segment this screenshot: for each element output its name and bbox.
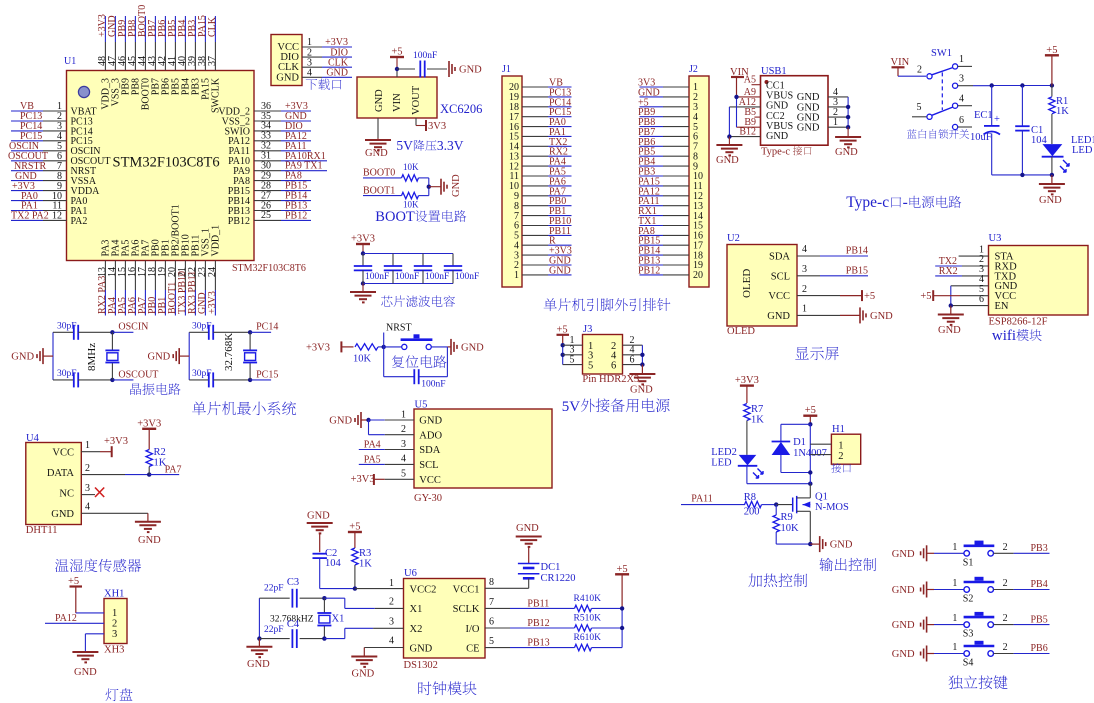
U1 pin 8 VSSA — [11, 171, 97, 187]
svg-text:LED2: LED2 — [711, 447, 737, 458]
power VIN port switch — [891, 57, 910, 76]
U5 pin 5 VCC +3V3 — [351, 469, 414, 485]
USB1 pin 2 — [828, 107, 848, 118]
svg-text:+3V3: +3V3 — [104, 436, 128, 447]
svg-text:PA4: PA4 — [364, 439, 381, 450]
svg-text:GND: GND — [148, 352, 171, 363]
USB1 pin 3 — [828, 97, 848, 108]
USB1 pin A9 — [737, 87, 761, 98]
U1 pin 39 PB3 — [187, 16, 202, 95]
J1 pin 14 — [509, 137, 572, 153]
svg-text:J2: J2 — [689, 64, 698, 75]
wire BOOT junction — [427, 178, 441, 196]
power +5 port lamp — [68, 576, 82, 613]
USB1 pin A5 — [744, 75, 761, 86]
svg-text:PB14: PB14 — [846, 246, 868, 257]
svg-text:4: 4 — [401, 454, 406, 465]
download-port pin 3 — [302, 57, 352, 68]
U1 pin 26 PB13 — [228, 200, 311, 217]
svg-text:wifi: wifi — [992, 328, 1016, 344]
svg-text:NC: NC — [59, 488, 74, 499]
svg-text:1K: 1K — [359, 559, 372, 570]
wire crystal left rail — [52, 332, 54, 380]
svg-text:GND: GND — [870, 311, 893, 322]
svg-text:GND: GND — [892, 585, 915, 596]
svg-text:+: + — [994, 114, 1000, 125]
svg-text:1K: 1K — [154, 458, 167, 469]
U1 pin 48 VDD_3 — [97, 14, 112, 110]
svg-text:I/O: I/O — [466, 624, 480, 635]
svg-text:3: 3 — [85, 483, 90, 494]
svg-text:GND: GND — [138, 535, 161, 546]
power GND port S3 — [892, 617, 934, 633]
resistor R7 1K — [744, 404, 765, 455]
svg-text:1: 1 — [401, 409, 406, 420]
wire D1 loop — [781, 424, 813, 474]
U6 pin 6 net PB12 resistor R5 10K — [485, 614, 622, 632]
power +3V3 port R7 — [735, 375, 759, 403]
svg-text:1: 1 — [802, 304, 807, 315]
U1 pin 11 PA1 — [11, 201, 87, 217]
U1 pin 9 VDDA — [11, 181, 100, 197]
power GND port BOOT — [441, 174, 462, 197]
svg-text:GND: GND — [461, 342, 484, 353]
ground symbol below regulator — [365, 140, 391, 159]
svg-text:DS1302: DS1302 — [404, 660, 438, 671]
svg-text:R3: R3 — [359, 548, 371, 559]
connector J1 body — [502, 76, 522, 287]
svg-text:6: 6 — [489, 617, 494, 628]
svg-text:GND: GND — [459, 65, 482, 76]
capacitor C3 22pF top — [259, 577, 324, 608]
U1 pin 3 PC14 — [11, 121, 93, 137]
svg-text:X1: X1 — [332, 614, 345, 625]
U1 pin 42 PB6 — [157, 16, 172, 95]
svg-text:1N4007: 1N4007 — [793, 448, 827, 459]
svg-text:GND: GND — [892, 549, 915, 560]
power GND port heater — [820, 536, 853, 552]
U2 pin 4 SDA — [797, 244, 868, 257]
svg-text:OSCOUT: OSCOUT — [118, 369, 158, 380]
crystal 32.768K — [223, 332, 257, 380]
svg-text:22pF: 22pF — [264, 584, 284, 594]
USB1 pin B9 — [737, 117, 761, 128]
title chip filter capacitors — [381, 296, 392, 307]
svg-text:1: 1 — [85, 440, 90, 451]
svg-text:OLED: OLED — [741, 269, 753, 298]
svg-text:PB12: PB12 — [638, 265, 660, 276]
capacitor 100nF decoupling — [413, 51, 447, 78]
crystal 8MHz — [86, 332, 119, 380]
J1 pin 1 — [514, 265, 572, 281]
capacitor C1 104 — [1015, 86, 1047, 175]
title mcu minimum system — [192, 401, 206, 415]
svg-text:GND: GND — [716, 155, 739, 166]
svg-text:10K: 10K — [353, 354, 372, 365]
U5 pin 4 SCL net PA5 — [359, 454, 414, 466]
J1 pin 6 — [514, 216, 572, 232]
svg-text:B12: B12 — [739, 127, 756, 138]
svg-text:GND: GND — [51, 509, 74, 520]
title mcu pin headers — [544, 298, 557, 311]
power GND port reset — [447, 339, 484, 355]
svg-text:200: 200 — [744, 507, 760, 518]
J1 pin 20 — [509, 78, 572, 94]
svg-text:4: 4 — [307, 68, 312, 79]
svg-text:R7: R7 — [751, 404, 763, 415]
USB1 pin 1 — [828, 117, 848, 128]
J1 pin 12 — [509, 157, 572, 173]
capacitor 30pF top — [189, 321, 250, 339]
svg-text:X1: X1 — [410, 604, 423, 615]
ground symbol U4 — [135, 522, 161, 546]
svg-text:5V: 5V — [396, 138, 413, 153]
sensor U4 DHT11 body — [26, 443, 82, 525]
U3 pin 5 VCC +5 — [920, 284, 988, 302]
capacitor 30pF bottom — [189, 369, 250, 388]
svg-text:+5: +5 — [617, 564, 628, 575]
switch SW1 link dashed — [941, 72, 943, 110]
J1 pin 11 — [509, 167, 571, 183]
capacitor 30pF top — [53, 321, 112, 339]
U1 pin 16 PA6 — [127, 240, 142, 316]
svg-text:5: 5 — [917, 102, 922, 113]
svg-text:2: 2 — [112, 618, 117, 629]
U1 pin 43 PB7 — [147, 16, 162, 95]
svg-text:5: 5 — [489, 636, 494, 647]
connector download-port body — [271, 35, 302, 86]
ground symbol filter — [350, 292, 376, 302]
svg-text:+5: +5 — [1046, 45, 1057, 56]
svg-text:SCL: SCL — [771, 271, 790, 282]
svg-text:C4: C4 — [287, 619, 300, 630]
svg-text:3.3V: 3.3V — [437, 138, 464, 153]
J2 pin 8 — [638, 147, 698, 163]
U1 pin 40 PB4 — [177, 16, 192, 95]
wire A12-B12 vertical — [727, 107, 731, 139]
download-port pin 2 — [302, 47, 352, 58]
J3 right pins wires — [623, 335, 645, 367]
svg-text:VCC: VCC — [419, 475, 441, 486]
capacitor 100nF filter 3 — [414, 254, 449, 284]
wire LED2 to drain node — [747, 466, 813, 486]
svg-text:VCC: VCC — [52, 447, 74, 458]
connector XH1 body — [104, 599, 127, 644]
svg-text:CLK: CLK — [207, 16, 218, 37]
svg-text:SWCLK: SWCLK — [211, 77, 222, 113]
svg-text:GND: GND — [276, 72, 299, 83]
U1 pin 24 VDD_1 — [207, 225, 222, 316]
power GND port S2 — [892, 582, 934, 598]
svg-text:BOOT0: BOOT0 — [363, 168, 395, 179]
wire power top rail — [990, 83, 1055, 87]
svg-text:10K: 10K — [781, 523, 800, 534]
svg-text:PB5: PB5 — [1031, 614, 1048, 625]
capacitor 100nF reset — [384, 347, 448, 390]
svg-text:3: 3 — [959, 74, 964, 85]
svg-text:GND: GND — [352, 669, 375, 680]
J2 pin 6 — [638, 127, 698, 143]
svg-text:3: 3 — [389, 617, 394, 628]
power +5 port J3 — [557, 324, 570, 345]
svg-text:PA5: PA5 — [364, 454, 381, 465]
U3 pin 2 RXD net TX2 — [935, 254, 988, 267]
crystal rail left — [257, 598, 261, 641]
title independent buttons — [948, 676, 962, 690]
J2 pin 10 — [638, 167, 703, 183]
resistor R8 200 — [744, 492, 793, 518]
svg-text:2: 2 — [85, 463, 90, 474]
svg-text:+5: +5 — [391, 47, 402, 58]
title display screen — [795, 347, 809, 360]
IC U1 STM32F103C8T6 body — [67, 71, 255, 261]
svg-text:CR1220: CR1220 — [541, 573, 576, 584]
resistor R2 1K — [146, 447, 167, 475]
U1 pin 2 PC13 — [11, 111, 93, 127]
svg-text:PB13: PB13 — [527, 638, 549, 649]
svg-text:Type-c: Type-c — [761, 147, 790, 158]
svg-text:C3: C3 — [287, 577, 299, 588]
U1 pin 21 PB10 — [177, 234, 192, 315]
svg-text:GND: GND — [326, 68, 348, 79]
wire +5 node to VIN — [395, 67, 415, 77]
U3 pin 1 STA — [959, 244, 989, 256]
U1 pin 27 PB14 — [228, 190, 311, 207]
svg-text:100nF: 100nF — [413, 51, 437, 61]
ground symbol crystal rail — [246, 647, 272, 670]
svg-text:GND: GND — [365, 148, 388, 159]
U1 pin 31 PA10 — [228, 151, 327, 168]
net label NRST — [382, 323, 412, 350]
switch SW1 pin3 — [953, 74, 992, 89]
svg-text:22pF: 22pF — [264, 625, 284, 635]
switch SW1 pole2 — [912, 94, 972, 120]
U1 pin 44 BOOT0 — [137, 5, 152, 110]
svg-text:+5: +5 — [864, 291, 875, 302]
svg-text:PB12: PB12 — [527, 618, 549, 629]
svg-text:GND: GND — [11, 352, 34, 363]
power +3V3 port R2 — [137, 418, 161, 449]
svg-text:PB6: PB6 — [1031, 643, 1048, 654]
resistor 10K BOOT1 — [402, 192, 429, 209]
svg-text:24: 24 — [207, 267, 218, 277]
U6 pin 5 net PB13 resistor R6 10K — [485, 633, 622, 651]
sensor U5 GY-30 body — [414, 409, 552, 488]
svg-text:+5: +5 — [920, 291, 931, 302]
svg-text:1: 1 — [833, 117, 838, 128]
svg-text:10K: 10K — [403, 162, 419, 172]
svg-text:1: 1 — [952, 613, 957, 624]
J2 pin 11 — [638, 176, 703, 192]
U1 pin 22 PB11 — [187, 235, 202, 316]
wire U3 ground stem — [950, 306, 952, 315]
svg-text:+5: +5 — [349, 522, 360, 533]
svg-text:PB12: PB12 — [285, 210, 307, 221]
U1 pin 18 PB0 — [147, 239, 162, 315]
svg-text:2: 2 — [1003, 578, 1008, 589]
svg-text:4: 4 — [802, 244, 807, 255]
J2 pin 3 — [638, 97, 698, 113]
title temperature humidity sensor — [55, 559, 69, 572]
download-port pin 1 — [302, 37, 352, 48]
wire filter to ground — [362, 284, 364, 293]
capacitor C2 104 — [313, 548, 342, 589]
svg-text:PB12: PB12 — [228, 216, 250, 227]
ground symbol J3 — [629, 374, 655, 396]
svg-text:RX2: RX2 — [939, 266, 958, 277]
diode D1 1N4007 — [772, 437, 827, 459]
svg-text:EN: EN — [995, 301, 1009, 312]
svg-text:GND: GND — [835, 147, 858, 158]
wire VOUT to 3V3 — [416, 118, 426, 126]
U1 pin 17 PA7 — [137, 240, 152, 316]
svg-text:EC1: EC1 — [974, 110, 993, 121]
ground symbol USB left — [716, 145, 742, 166]
net label OSCIN — [110, 322, 148, 335]
svg-text:1K: 1K — [1056, 106, 1069, 117]
wire pullup rail — [620, 606, 624, 647]
svg-text:GND: GND — [247, 659, 270, 670]
svg-text:100nF: 100nF — [365, 272, 389, 282]
U1 pin 36 VDD_2 — [218, 101, 311, 118]
svg-text:3V3: 3V3 — [428, 121, 446, 132]
power GND port crystal — [11, 348, 53, 364]
svg-text:Pin HDR2X3: Pin HDR2X3 — [582, 374, 639, 385]
resistor R1 1K — [1049, 86, 1070, 145]
svg-text:GND: GND — [451, 174, 462, 197]
svg-text:25: 25 — [261, 210, 271, 221]
U4 pin 1 VCC +3V3 — [81, 436, 128, 457]
XH1 pin 1 wire — [76, 612, 104, 614]
U2 pin 2 VCC — [797, 284, 875, 302]
crystal X1 32.768kHZ — [270, 598, 344, 638]
wire crystal rail to ground — [258, 639, 260, 647]
J3 left pins wires — [561, 335, 583, 365]
svg-text:GND: GND — [830, 540, 853, 551]
svg-text:1: 1 — [112, 608, 117, 619]
svg-text:2: 2 — [838, 451, 843, 462]
wire rail to ground — [1051, 175, 1053, 184]
J2 pin 18 — [638, 246, 703, 262]
J1 pin 4 — [514, 236, 572, 252]
U2 pin 1 GND — [797, 304, 893, 324]
power VIN port — [730, 67, 749, 97]
svg-text:R510K: R510K — [574, 614, 602, 624]
svg-text:GND: GND — [374, 89, 385, 112]
connector J2 body — [689, 76, 709, 287]
U1 pin 20 PB2/BOOT1 — [167, 204, 182, 315]
wire power bottom rail — [992, 173, 1054, 177]
svg-text:2: 2 — [1003, 542, 1008, 553]
power +5 port — [390, 47, 404, 70]
svg-text:STM32F103C8T6: STM32F103C8T6 — [113, 155, 220, 171]
svg-text:3: 3 — [802, 264, 807, 275]
resistor 10K reset — [353, 344, 384, 365]
svg-text:GND: GND — [516, 523, 539, 534]
svg-text:VCC2: VCC2 — [410, 584, 437, 595]
svg-text:PA11: PA11 — [691, 494, 713, 505]
svg-text:8MHz: 8MHz — [86, 343, 98, 371]
net label PA11 wire — [681, 494, 745, 505]
wire crystal left rail — [188, 332, 190, 380]
ground symbol power rail — [1039, 184, 1065, 206]
svg-text:100nF: 100nF — [425, 272, 449, 282]
push button reset — [384, 334, 448, 349]
svg-text:DC1: DC1 — [541, 562, 561, 573]
svg-text:+3V3: +3V3 — [735, 375, 759, 386]
svg-text:U2: U2 — [727, 233, 740, 244]
U1 pin 38 PA15 — [197, 15, 212, 100]
J1 pin 18 — [509, 97, 572, 113]
U1 pin 33 PA12 — [228, 131, 311, 148]
svg-text:R2: R2 — [154, 447, 166, 458]
svg-text:GND: GND — [410, 644, 433, 655]
title output control — [819, 558, 833, 571]
switch SW1 pin6 — [953, 115, 973, 130]
svg-text:1: 1 — [838, 441, 843, 452]
power GND port crystal — [148, 348, 190, 364]
svg-text:5: 5 — [401, 469, 406, 480]
svg-text:XH3: XH3 — [104, 645, 124, 656]
svg-text:J3: J3 — [583, 324, 592, 335]
USB1 pin 4 — [828, 87, 848, 98]
svg-text:3: 3 — [401, 439, 406, 450]
svg-text:R9: R9 — [781, 512, 793, 523]
svg-text:4: 4 — [85, 502, 90, 513]
push button S3 net PB5 — [934, 612, 1050, 640]
svg-text:4: 4 — [959, 94, 964, 105]
svg-text:1K: 1K — [751, 415, 764, 426]
label Type-c port — [761, 146, 812, 157]
svg-text:+3V3: +3V3 — [306, 342, 330, 353]
wire source to ground rail — [776, 542, 820, 546]
filter bottom rail wire — [361, 281, 453, 285]
capacitor 30pF bottom — [53, 369, 112, 388]
svg-text:6: 6 — [979, 294, 984, 305]
svg-text:PA12: PA12 — [55, 613, 77, 624]
capacitor 100nF filter 2 — [384, 254, 419, 284]
U1 pin 13 PA3 — [97, 240, 112, 316]
U1 pin 47 VSS_3 — [107, 15, 122, 106]
svg-text:S1: S1 — [963, 557, 974, 568]
svg-text:LED: LED — [711, 458, 732, 469]
svg-text:10uF: 10uF — [970, 132, 992, 143]
U3 pin 4 GND — [951, 274, 989, 306]
connector J3 body — [583, 335, 623, 375]
svg-text:XC6206: XC6206 — [440, 102, 482, 116]
svg-text:10K: 10K — [403, 200, 419, 210]
resistor R9 10K — [773, 505, 799, 544]
J1 pin 16 — [509, 117, 572, 133]
svg-text:1: 1 — [952, 542, 957, 553]
USB1 pin B5 — [744, 107, 760, 118]
svg-text:S4: S4 — [963, 658, 974, 669]
svg-text:N-MOS: N-MOS — [815, 502, 849, 513]
svg-text:PB11: PB11 — [527, 598, 549, 609]
U1 pin 28 PB15 — [228, 180, 311, 197]
J2 pin 14 — [638, 206, 703, 222]
power +5 port heater — [803, 405, 817, 424]
J2 pin 17 — [638, 236, 703, 252]
svg-text:2: 2 — [1003, 642, 1008, 653]
J1 pin 7 — [514, 206, 572, 222]
power GND port S4 — [892, 646, 934, 662]
wire USB GND bus — [846, 97, 850, 129]
svg-text:GND: GND — [630, 385, 653, 396]
U6 pin 7 net PB11 resistor R4 10K — [485, 594, 622, 612]
svg-text:D1: D1 — [793, 437, 806, 448]
power +5 port clock pullups — [615, 564, 629, 609]
